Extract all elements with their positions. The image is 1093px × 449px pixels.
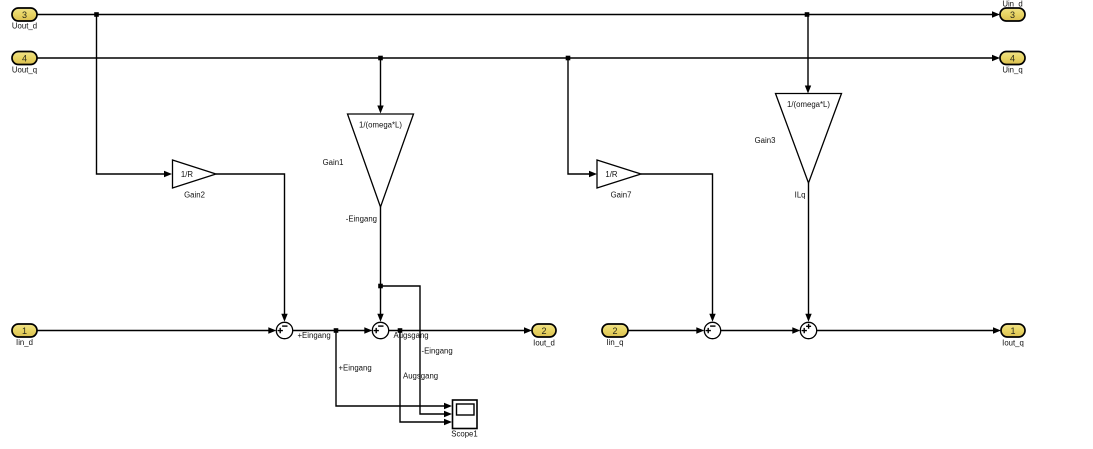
svg-text:Uout_d: Uout_d [12,22,37,31]
junction Gain1 output / scope branch [378,284,383,289]
svg-text:Uout_q: Uout_q [12,66,37,75]
wire Gain7 output to sum3 top [641,174,716,322]
svg-text:1: 1 [22,326,27,336]
svg-text:+Eingang: +Eingang [298,331,331,340]
gain block Gain3 value 1/(omega*L) [755,94,842,184]
wire Uout_q main horizontal to Uin_q [37,55,1000,61]
svg-text:1/R: 1/R [605,170,618,179]
svg-text:Iin_q: Iin_q [607,338,624,347]
wire branch Uout_d down to Gain3 input [805,15,811,94]
junction sum2 output / scope branch [398,328,403,333]
wire Iin_q to sum3 [628,327,704,333]
svg-text:3: 3 [22,10,27,20]
svg-text:Gain3: Gain3 [755,136,776,145]
sum block sum4 (+ left, + top) [800,322,816,338]
svg-text:Gain7: Gain7 [611,191,632,200]
svg-text:Iin_d: Iin_d [16,338,33,347]
scope block Scope1 [451,400,477,439]
sum block sum1 (+ left, - top) [276,322,292,338]
input port 2 Iin_q [602,324,628,347]
sum block sum3 (+ left, - top) [704,322,720,338]
svg-text:1/(omega*L): 1/(omega*L) [359,121,402,130]
wire Uout_d main horizontal to Uin_d [37,11,1000,17]
wire branch Uout_q down to Gain1 input [377,58,383,114]
wire branch Uout_d down to Gain2 input [97,15,173,178]
svg-text:Uin_d: Uin_d [1002,0,1022,9]
input port 3 Uout_d [12,8,37,31]
junction Uout_q / Gain7 branch [566,56,571,61]
gain block Gain1 value 1/(omega*L) [323,114,414,207]
junction sum1 output / scope branch [334,328,339,333]
input port 1 Iin_d [12,324,37,347]
svg-text:Scope1: Scope1 [451,430,477,439]
svg-text:Uin_q: Uin_q [1002,66,1022,75]
svg-text:4: 4 [22,53,27,63]
svg-text:Gain1: Gain1 [323,158,344,167]
svg-text:1/R: 1/R [181,170,194,179]
wire sum3 output to sum4 [721,327,801,333]
wire sum2 output branch to Scope1 input 3 [400,331,452,426]
wire sum4 output to Iout_q [817,327,1001,333]
output port 3 Uin_d [1000,0,1025,21]
output port 1 Iout_q [1001,324,1025,348]
svg-text:ILq: ILq [795,190,806,199]
svg-text:+Eingang: +Eingang [339,363,372,372]
junction Uout_q / Gain1 branch [378,56,383,61]
svg-text:4: 4 [1010,53,1015,63]
svg-text:1/(omega*L): 1/(omega*L) [787,100,830,109]
output port 2 Iout_d [532,324,556,348]
svg-text:2: 2 [612,326,617,336]
wire Iin_d to sum1 [37,327,276,333]
svg-text:Iout_d: Iout_d [533,339,555,348]
output port 4 Uin_q [1000,52,1025,75]
junction Uout_d / Gain3 branch [805,12,810,17]
wire branch Uout_q down to Gain7 input [568,58,597,177]
svg-text:2: 2 [541,326,546,336]
svg-text:Iout_q: Iout_q [1002,339,1024,348]
wire Gain1 output branch to Scope1 input 2 [381,286,453,417]
svg-text:Augsgang: Augsgang [403,372,438,381]
junction Uout_d / Gain2 branch [94,12,99,17]
svg-text:-Eingang: -Eingang [422,347,453,356]
wire sum1 output branch to Scope1 input 1 [336,331,452,410]
gain block Gain7 value 1/R [597,160,641,200]
svg-text:Gain2: Gain2 [184,191,205,200]
wire Gain2 output to sum1 top [216,174,288,322]
input port 4 Uout_q [12,52,37,75]
sum block sum2 (+ left, - top) [372,322,388,338]
wire Gain3 output down to sum4 top [805,183,811,322]
wire sum1 output to sum2 [293,327,373,333]
gain block Gain2 value 1/R [173,160,217,200]
wire Gain1 output down to sum2 top [377,207,383,322]
svg-text:-Eingang: -Eingang [346,214,377,223]
wire sum2 output to Iout_d [389,327,532,333]
svg-text:1: 1 [1010,326,1015,336]
svg-text:3: 3 [1010,10,1015,20]
